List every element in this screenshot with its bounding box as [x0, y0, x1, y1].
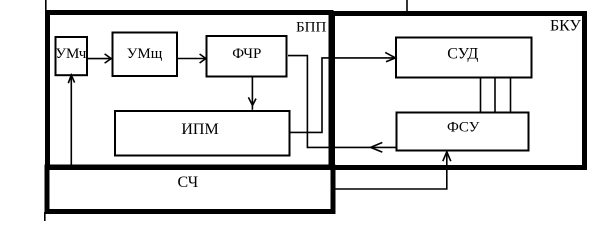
svg-text:ФЧР: ФЧР: [232, 46, 261, 62]
svg-text:УМч: УМч: [55, 46, 86, 62]
svg-text:БКУ: БКУ: [550, 18, 582, 35]
svg-text:СУД: СУД: [447, 46, 478, 63]
svg-text:ИПМ: ИПМ: [181, 121, 218, 138]
svg-text:УМщ: УМщ: [127, 46, 163, 62]
svg-text:БПП: БПП: [296, 19, 326, 35]
svg-text:СЧ: СЧ: [177, 174, 198, 191]
svg-text:ФСУ: ФСУ: [447, 120, 480, 136]
